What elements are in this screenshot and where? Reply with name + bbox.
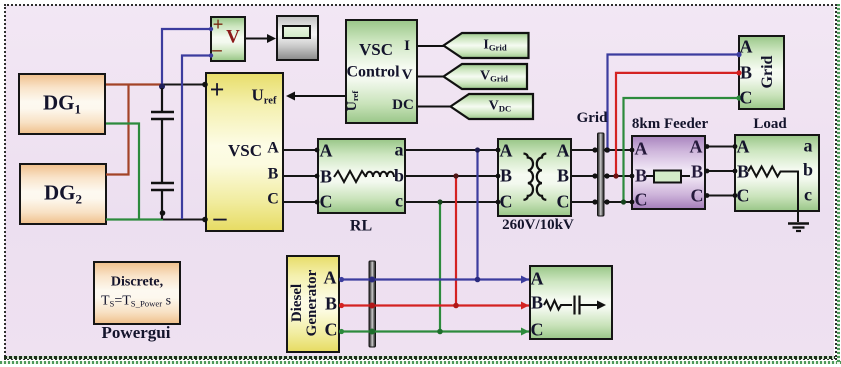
- label xfmr B2: [557, 166, 569, 184]
- wire red tap B down: [453, 173, 458, 305]
- wire Uref from VSC Control to VSC with arrow: [286, 92, 345, 101]
- wire RL b to transformer B: [406, 174, 500, 179]
- wire RL c to transformer C: [406, 200, 500, 205]
- label diesel C: [325, 320, 338, 338]
- ground symbol: [788, 224, 809, 232]
- capacitor C1: [151, 88, 174, 182]
- block RL: [317, 138, 406, 214]
- wire grid A blue: [605, 52, 742, 153]
- label load C: [737, 186, 750, 204]
- label V block V: [226, 28, 240, 47]
- label VSC C: [267, 191, 279, 207]
- block voltage measurement V: [210, 16, 246, 62]
- wire feeder C to load C: [705, 193, 738, 198]
- label diesel A: [324, 268, 337, 286]
- wire DC+ rail black to VSC +: [162, 84, 206, 86]
- label RL a: [395, 140, 404, 158]
- scope screen: [282, 25, 311, 39]
- node junction DC+: [159, 84, 165, 90]
- label V block minus: [212, 41, 222, 60]
- label 260V/10kV: [502, 218, 574, 233]
- right green dotted line: [837, 4, 840, 364]
- label load B: [737, 162, 749, 180]
- goto tag VGrid: [444, 64, 528, 89]
- block Load: [734, 134, 820, 212]
- label tag VGrid: [480, 69, 508, 83]
- busbar diesel: [369, 261, 376, 347]
- node tap A join: [475, 277, 481, 283]
- label feeder C2: [691, 186, 704, 204]
- wire grid C green: [621, 95, 742, 204]
- goto tag VDC: [451, 94, 534, 119]
- wire transformer B to feeder B through bus: [572, 175, 631, 177]
- label feeder B2: [691, 162, 703, 180]
- wire VSC control V to tag: [418, 76, 444, 78]
- block 8km Feeder: [631, 135, 706, 210]
- node bus A left/right: [592, 147, 609, 152]
- label VSC plus: [210, 77, 225, 103]
- wire transformer A to feeder A through bus: [572, 149, 631, 151]
- label VSC B: [268, 166, 279, 182]
- label Grid bus: [577, 111, 608, 126]
- label ctrl V: [402, 68, 413, 83]
- node VSC-: [202, 217, 208, 223]
- label Ts: [101, 294, 171, 308]
- label RC A: [531, 269, 544, 287]
- wire brown branch to DG2: [106, 85, 129, 175]
- wire VSC B to RL: [284, 174, 319, 179]
- label ctrl DC: [392, 98, 414, 113]
- label feeder A: [635, 139, 648, 157]
- label diesel B: [325, 294, 337, 312]
- label feeder A2: [690, 137, 703, 155]
- label grid C: [740, 88, 753, 106]
- block powergui: [93, 261, 181, 325]
- wire diesel A blue: [339, 276, 529, 284]
- wire VSC C to RL: [284, 200, 319, 205]
- label Powergui: [102, 324, 171, 341]
- wire blue tap A down: [475, 147, 480, 279]
- label xfmr B: [500, 166, 512, 184]
- label tag IGrid: [483, 38, 506, 52]
- label VSC A: [267, 140, 279, 156]
- label VSC minus: [214, 205, 227, 231]
- label grid A: [740, 37, 753, 55]
- label xfmr A: [500, 141, 513, 159]
- label VSC Uref: [252, 87, 277, 105]
- wire DC- rail green from DG2: [106, 218, 163, 220]
- node V+ port: [209, 27, 213, 31]
- resistor box inside feeder: [646, 171, 690, 183]
- busbar Grid: [598, 133, 605, 216]
- block transformer 260V/10kV: [497, 138, 572, 217]
- label xfmr C2: [557, 192, 570, 210]
- wire blue to V-: [182, 56, 210, 220]
- label xfmr A2: [557, 141, 570, 159]
- block scope: [276, 15, 319, 61]
- wire diesel C green: [339, 328, 529, 336]
- wire transformer C to feeder C through bus: [572, 201, 631, 203]
- wire green tap C down: [437, 199, 442, 331]
- label VSC: [228, 142, 262, 159]
- node tap B join: [453, 303, 459, 309]
- label DG1: [43, 93, 81, 114]
- bottom green dotted line: [0, 361, 841, 364]
- block DG1: [18, 73, 106, 135]
- label tag VDC: [489, 99, 512, 113]
- wire VSC A to RL: [284, 148, 319, 153]
- resistor capacitor arrow inside RC block: [544, 296, 606, 315]
- block RC filter: [529, 265, 613, 340]
- resistor inside Load with ground: [748, 167, 798, 223]
- label 8km Feeder: [632, 117, 708, 132]
- label feeder B: [635, 166, 647, 184]
- wire blue to V+: [162, 29, 210, 84]
- label load A: [737, 137, 750, 155]
- label grid rotated: [760, 56, 776, 89]
- wire feeder B to load B: [705, 169, 738, 174]
- label load b: [803, 160, 813, 178]
- label feeder C: [635, 190, 648, 208]
- label RL title: [350, 218, 372, 234]
- node feeder inputs: [630, 148, 635, 205]
- label VSC Control title: [359, 41, 393, 58]
- block VSC Control: [345, 19, 418, 124]
- transformer windings: [524, 154, 547, 200]
- wire diesel B red: [339, 302, 529, 310]
- label diesel generator rotated: [290, 270, 320, 337]
- resistor and inductor inside RL: [334, 171, 394, 182]
- label RL b: [394, 166, 404, 184]
- wire feeder A to load A: [705, 144, 738, 149]
- label grid B: [740, 63, 752, 81]
- label load a: [804, 136, 813, 154]
- block Grid (top right): [738, 35, 785, 110]
- wire VSC control DC to tag: [418, 106, 451, 108]
- capacitor C2: [151, 183, 174, 219]
- node V- port: [209, 53, 213, 57]
- wire DC- rail black to VSC -: [163, 219, 206, 221]
- node bus2 B: [369, 303, 375, 309]
- label RL C: [320, 192, 333, 210]
- label Load title: [753, 117, 786, 132]
- label RL B: [320, 167, 332, 185]
- label DG2: [44, 183, 82, 204]
- node bus2 A: [369, 277, 375, 283]
- label RC C: [531, 320, 544, 338]
- goto tag IGrid: [444, 33, 529, 58]
- wire VSC control I to tag: [418, 45, 444, 47]
- label xfmr C: [500, 192, 513, 210]
- label load c: [804, 185, 812, 203]
- label ctrl Uref rotated: [346, 91, 360, 112]
- node VSC+: [202, 82, 208, 88]
- wire green branch from DG1: [106, 124, 139, 220]
- label RL c: [395, 191, 403, 209]
- label RL A: [320, 141, 333, 159]
- wire V to scope with arrow: [246, 34, 276, 43]
- block DG2: [19, 163, 107, 225]
- wire RL a to transformer A: [406, 148, 500, 153]
- wire grid B red: [613, 70, 741, 178]
- node bus2 C: [369, 329, 375, 335]
- bottom dark dashed border line: [4, 356, 835, 359]
- node bus B left/right: [592, 173, 609, 178]
- wire DC+ rail brown from DG1: [106, 83, 162, 85]
- block VSC: [205, 72, 284, 232]
- node bus C left/right: [592, 199, 609, 204]
- node DC- cap join: [160, 210, 166, 216]
- block Diesel Generator: [286, 255, 340, 353]
- label RC B: [531, 293, 543, 311]
- label discrete: [111, 275, 163, 289]
- node tap C join: [437, 329, 443, 335]
- label V block plus: [213, 16, 224, 35]
- label ctrl I: [404, 39, 410, 54]
